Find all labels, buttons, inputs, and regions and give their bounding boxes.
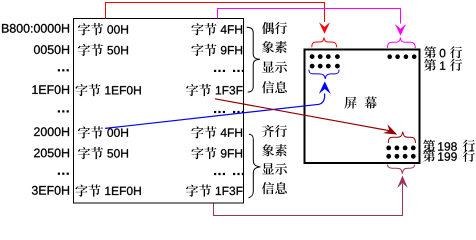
label 信息 (bottom)	[262, 182, 287, 194]
brace purple under row199 dots	[388, 165, 415, 174]
brace even-rows group	[247, 27, 260, 92]
wire 2000H row to screen row1 (blue)	[105, 94, 325, 129]
brace blue under row1 dots	[309, 70, 339, 79]
row7 bytes 50H/9FH	[78, 147, 242, 159]
address ellipsis 3	[58, 173, 69, 175]
address label B800:0000H	[2, 24, 69, 33]
label 信息 (top)	[262, 81, 287, 93]
label odd rows 齐行	[262, 125, 287, 137]
label row 0	[424, 46, 462, 58]
arrowhead dark red	[383, 124, 400, 139]
arrowhead red	[319, 22, 330, 34]
wire row0-start to screen (red)	[106, 3, 325, 22]
pixel dots rows 198-199	[386, 146, 415, 159]
label row 199	[423, 150, 475, 162]
screen box	[305, 50, 420, 164]
row5 ellipsis	[214, 111, 244, 113]
row1 bytes 00H/4FH	[78, 23, 242, 35]
label row 198	[423, 140, 475, 152]
brace magenta over row0-end dots	[387, 38, 415, 48]
address label 2050H	[34, 149, 69, 158]
arrowhead purple	[397, 176, 408, 188]
label 象素 (bottom)	[262, 144, 287, 156]
label 显示 (top)	[262, 61, 287, 73]
row8 ellipsis	[214, 173, 244, 175]
row6 bytes 00H/4FH	[78, 126, 242, 138]
arrowhead blue	[319, 81, 331, 94]
address ellipsis 2	[58, 110, 69, 112]
label 象素 (top)	[262, 41, 287, 53]
brace dark red over row198 dots	[388, 132, 415, 143]
arrowhead magenta	[395, 24, 406, 35]
pixel dots row 0 right	[387, 54, 416, 59]
brace red over row0 dots	[312, 37, 337, 47]
screen label 屏幕	[344, 96, 377, 108]
wire row0-end to screen (magenta)	[218, 9, 401, 24]
wire even-last-row to screen row198 (dark red)	[215, 99, 390, 131]
label row 1	[424, 59, 462, 71]
label 显示 (bottom)	[262, 163, 287, 175]
label even rows 偶行	[262, 22, 287, 34]
row4 bytes 1EF0H/1F3F	[76, 84, 243, 96]
wire odd-last-row to screen row199 (purple)	[214, 184, 403, 216]
row2 bytes 50H/9FH	[78, 44, 242, 56]
address ellipsis 1	[58, 69, 69, 71]
address label 0050H	[34, 45, 69, 54]
address label 2000H	[34, 127, 69, 136]
row3 ellipsis	[214, 70, 244, 72]
row9 bytes 1EF0H/1F3F	[76, 184, 243, 196]
memory box	[74, 19, 244, 204]
pixel dots rows 0-1 left	[310, 54, 340, 68]
address label 3EF0H	[32, 186, 69, 195]
address label 1EF0H	[32, 85, 69, 94]
brace odd-rows group	[249, 134, 261, 198]
